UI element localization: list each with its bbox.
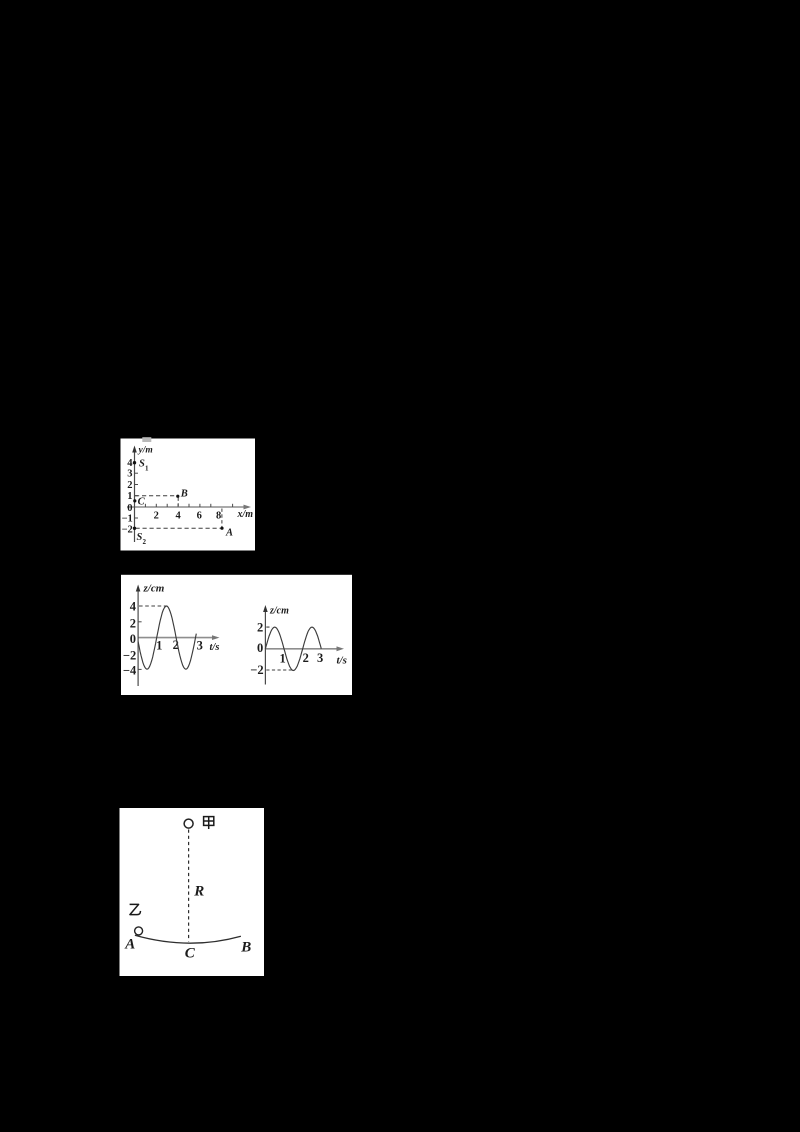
- wave right: [265, 627, 321, 670]
- yi char: [130, 904, 141, 914]
- point S1: [133, 461, 136, 464]
- svg-text:2: 2: [143, 538, 147, 546]
- svg-text:2: 2: [127, 480, 132, 491]
- PANEL2: [121, 575, 352, 695]
- dashed S2-A: [136, 527, 223, 529]
- svg-text:2: 2: [130, 616, 136, 630]
- y-axis: [134, 449, 136, 542]
- x-axis: [127, 506, 249, 508]
- dashed B down: [177, 498, 179, 507]
- y-axis: [137, 588, 139, 686]
- dashed A up: [221, 509, 223, 528]
- svg-text:A: A: [225, 528, 233, 539]
- svg-text:6: 6: [197, 510, 202, 521]
- x ticks: [145, 504, 232, 507]
- svg-text:C: C: [138, 496, 146, 507]
- x-axis: [138, 637, 217, 639]
- jia char: [204, 817, 214, 829]
- svg-text:B: B: [240, 939, 251, 955]
- dashed 4 level: [139, 605, 166, 607]
- svg-text:z/cm: z/cm: [269, 606, 289, 617]
- svg-text:4: 4: [127, 458, 133, 469]
- svg-text:3: 3: [317, 651, 323, 665]
- svg-text:t/s: t/s: [210, 642, 220, 653]
- svg-text:2: 2: [257, 620, 263, 634]
- svg-text:−2: −2: [122, 525, 133, 536]
- y-axis: [264, 609, 266, 685]
- ball yi: [135, 927, 143, 935]
- ticks: [138, 622, 142, 670]
- point A: [220, 527, 223, 530]
- point S2: [133, 527, 136, 530]
- svg-text:C: C: [185, 946, 196, 962]
- svg-text:0: 0: [257, 641, 263, 655]
- svg-text:1: 1: [127, 491, 132, 502]
- point C: [133, 499, 136, 502]
- svg-text:8: 8: [216, 510, 221, 521]
- svg-text:1: 1: [145, 465, 149, 473]
- y numbers: [122, 458, 134, 536]
- y ticks: [135, 473, 139, 518]
- dashed C-B: [135, 495, 178, 497]
- arc A-C-B: [135, 935, 241, 943]
- svg-text:−2: −2: [250, 663, 263, 677]
- svg-text:−2: −2: [123, 648, 136, 662]
- x-axis: [265, 648, 341, 650]
- dashed 2 level: [266, 626, 272, 628]
- svg-text:3: 3: [197, 638, 203, 652]
- svg-text:x/m: x/m: [237, 509, 254, 520]
- PANEL1: [121, 439, 256, 551]
- svg-text:1: 1: [279, 652, 285, 666]
- svg-text:3: 3: [127, 469, 132, 480]
- svg-text:z/cm: z/cm: [143, 583, 165, 595]
- svg-text:0: 0: [130, 632, 136, 646]
- wave left: [138, 606, 196, 669]
- point B: [176, 495, 179, 498]
- svg-text:y/m: y/m: [138, 446, 153, 456]
- svg-text:2: 2: [154, 510, 159, 521]
- PANEL3: [120, 808, 265, 976]
- svg-text:4: 4: [175, 510, 181, 521]
- dashed R line: [188, 830, 190, 942]
- svg-text:A: A: [124, 937, 135, 953]
- x numbers: [154, 510, 222, 521]
- svg-text:R: R: [193, 884, 204, 900]
- svg-text:1: 1: [156, 639, 162, 653]
- svg-text:−1: −1: [122, 513, 133, 524]
- ball jia: [184, 819, 193, 828]
- svg-text:t/s: t/s: [337, 654, 347, 666]
- svg-text:B: B: [180, 488, 188, 499]
- dashed -2 level: [266, 669, 293, 671]
- svg-text:−4: −4: [123, 664, 137, 678]
- svg-text:2: 2: [303, 651, 309, 665]
- svg-text:4: 4: [130, 600, 137, 614]
